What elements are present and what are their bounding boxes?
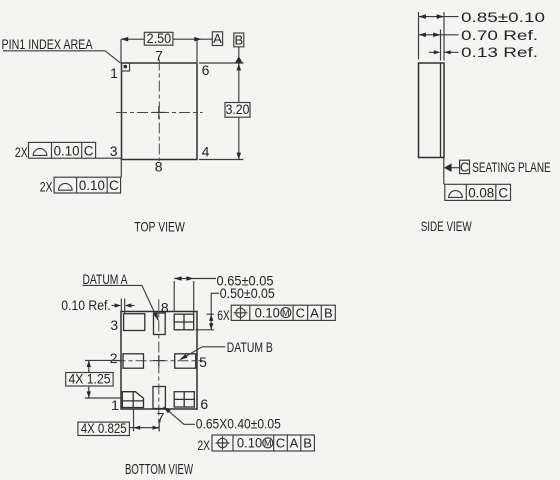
svg-text:7: 7 bbox=[157, 410, 165, 426]
svg-text:0.10: 0.10 bbox=[54, 143, 80, 158]
svg-text:4X 0.825: 4X 0.825 bbox=[81, 421, 127, 436]
svg-text:B: B bbox=[234, 32, 243, 47]
svg-text:2X: 2X bbox=[40, 179, 53, 194]
svg-text:B: B bbox=[303, 436, 312, 451]
svg-text:2: 2 bbox=[110, 350, 118, 366]
svg-text:0.10: 0.10 bbox=[255, 305, 280, 320]
svg-text:TOP VIEW: TOP VIEW bbox=[134, 218, 185, 234]
svg-text:0.10: 0.10 bbox=[237, 436, 262, 451]
svg-text:A: A bbox=[213, 31, 222, 46]
svg-text:2X: 2X bbox=[15, 145, 28, 160]
svg-text:C: C bbox=[84, 143, 94, 158]
svg-text:0.10 Ref.: 0.10 Ref. bbox=[61, 298, 111, 313]
svg-text:0.65X0.40±0.05: 0.65X0.40±0.05 bbox=[196, 416, 281, 432]
svg-text:SIDE VIEW: SIDE VIEW bbox=[421, 218, 473, 234]
svg-text:4: 4 bbox=[202, 144, 210, 160]
svg-text:7: 7 bbox=[155, 48, 163, 64]
svg-text:0.13 Ref.: 0.13 Ref. bbox=[461, 44, 538, 60]
svg-text:C: C bbox=[109, 178, 119, 193]
svg-text:3: 3 bbox=[110, 317, 118, 333]
svg-text:B: B bbox=[324, 305, 333, 320]
svg-text:0.08: 0.08 bbox=[468, 185, 494, 200]
svg-text:4X 1.25: 4X 1.25 bbox=[69, 371, 111, 386]
svg-text:C: C bbox=[296, 305, 305, 320]
svg-text:6X: 6X bbox=[217, 307, 230, 323]
svg-text:C: C bbox=[460, 160, 469, 175]
svg-text:0.70 Ref.: 0.70 Ref. bbox=[461, 27, 538, 43]
svg-text:PIN1 INDEX AREA: PIN1 INDEX AREA bbox=[2, 37, 93, 52]
svg-text:C: C bbox=[276, 436, 285, 451]
svg-text:5: 5 bbox=[199, 354, 207, 370]
svg-text:6: 6 bbox=[202, 62, 210, 78]
svg-text:M: M bbox=[282, 308, 290, 318]
svg-text:8: 8 bbox=[155, 159, 163, 175]
svg-text:DATUM B: DATUM B bbox=[227, 340, 273, 355]
svg-text:8: 8 bbox=[161, 299, 169, 315]
svg-text:A: A bbox=[310, 305, 319, 320]
svg-text:6: 6 bbox=[200, 396, 208, 412]
svg-text:SEATING PLANE: SEATING PLANE bbox=[472, 159, 551, 175]
svg-text:A: A bbox=[290, 436, 299, 451]
svg-text:M: M bbox=[264, 438, 272, 448]
svg-text:2X: 2X bbox=[198, 437, 211, 453]
svg-text:DATUM A: DATUM A bbox=[83, 272, 128, 287]
svg-text:2.50: 2.50 bbox=[147, 31, 172, 46]
svg-text:1: 1 bbox=[110, 65, 118, 81]
svg-text:3: 3 bbox=[110, 143, 118, 159]
svg-text:1: 1 bbox=[111, 397, 119, 413]
svg-text:0.50±0.05: 0.50±0.05 bbox=[220, 285, 275, 301]
svg-text:3.20: 3.20 bbox=[226, 102, 250, 117]
svg-text:C: C bbox=[498, 185, 508, 200]
svg-text:0.85±0.10: 0.85±0.10 bbox=[461, 9, 545, 25]
svg-text:0.10: 0.10 bbox=[79, 178, 105, 193]
svg-text:BOTTOM VIEW: BOTTOM VIEW bbox=[125, 462, 193, 478]
